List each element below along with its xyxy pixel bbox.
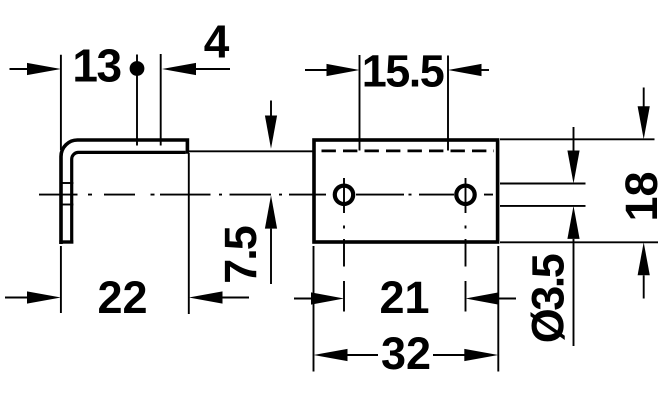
dim 18 top arrow tail <box>643 88 645 108</box>
svg-text:18: 18 <box>616 171 660 221</box>
dim 22 right extension line <box>188 153 190 314</box>
dim 22 right arrow tail <box>223 297 250 299</box>
right view hidden bend line (dashed) <box>322 150 495 153</box>
dim 32 right extension line <box>497 246 499 372</box>
dim 13 extension line left <box>60 55 62 150</box>
dim 7.5 upper arrow tail <box>270 101 272 118</box>
left view bottom end cap <box>59 240 73 243</box>
dim 13 origin dot <box>130 61 145 76</box>
dim 21 left arrow tail <box>294 298 312 300</box>
dim 4 arrowhead <box>162 63 196 75</box>
dim 3.5 top arrowhead <box>567 151 579 184</box>
dim 3.5 bottom arrow tail <box>573 239 575 346</box>
svg-text:13: 13 <box>72 40 120 92</box>
dim 18 bottom arrowhead <box>638 242 650 275</box>
dim 4 extension line <box>160 54 162 146</box>
svg-text:Ø3.5: Ø3.5 <box>523 254 574 343</box>
svg-text:4: 4 <box>204 16 230 68</box>
dim 3.5 top arrow tail <box>573 127 575 151</box>
dim 18 top arrowhead <box>638 106 650 139</box>
dim 4 arrow tail <box>196 68 230 70</box>
dim 7.5 upper arrowhead <box>265 116 277 149</box>
dim 15.5 left extension line <box>359 55 361 151</box>
dim 32 left extension line <box>313 246 315 372</box>
dim 21 right arrowhead <box>466 292 499 304</box>
dim 22 left arrow tail <box>5 297 28 299</box>
dim 21 right arrow tail <box>499 298 517 300</box>
hole edge top extension line <box>500 183 586 185</box>
dim 22 left extension line <box>60 246 62 313</box>
center line main horizontal <box>39 194 493 196</box>
dim 7.5 lower arrow tail <box>270 229 272 284</box>
dim 32 left arrowhead <box>314 349 348 361</box>
left view leg tick lower <box>60 204 73 206</box>
dim 15.5 left arrowhead <box>327 64 360 76</box>
dim 13 arrowhead <box>27 63 61 75</box>
dim 32 line right segment <box>433 354 465 356</box>
hole edge bottom extension line <box>500 205 586 207</box>
hole right <box>456 186 474 204</box>
hole right vertical center line <box>465 178 467 312</box>
dim 22 left arrowhead <box>27 291 61 303</box>
dim 18 bottom arrow tail <box>643 275 645 298</box>
dim 21 left arrowhead <box>311 292 344 304</box>
dim 18 top extension line <box>500 138 655 140</box>
left view outer contour <box>61 140 187 244</box>
dim 18 bottom extension line <box>500 241 658 243</box>
svg-text:15.5: 15.5 <box>362 46 444 97</box>
dim 7.5 lower arrowhead <box>265 195 277 228</box>
dim 15.5 left arrow tail <box>305 69 327 71</box>
svg-text:7.5: 7.5 <box>215 226 266 284</box>
svg-text:32: 32 <box>381 328 431 379</box>
right view plate outline <box>314 140 498 242</box>
svg-text:22: 22 <box>97 272 147 323</box>
dim 15.5 right extension line <box>447 56 449 151</box>
left view leg tick upper <box>60 182 73 184</box>
hole left <box>335 186 353 204</box>
dim 13 arrow tail <box>10 68 29 70</box>
dim 15.5 right arrowhead <box>448 64 482 76</box>
dim 13 dot reference line <box>136 55 138 146</box>
left view inner contour <box>72 152 186 240</box>
dim 32 right arrowhead <box>464 349 498 361</box>
hole left vertical center line <box>343 178 345 312</box>
dim 22 right arrowhead <box>189 291 223 303</box>
dim 3.5 bottom arrowhead <box>567 206 579 239</box>
connector line between views <box>189 150 314 152</box>
dim 15.5 right arrow tail <box>482 69 490 71</box>
svg-text:21: 21 <box>379 272 429 323</box>
dim 32 line left segment <box>347 354 378 356</box>
